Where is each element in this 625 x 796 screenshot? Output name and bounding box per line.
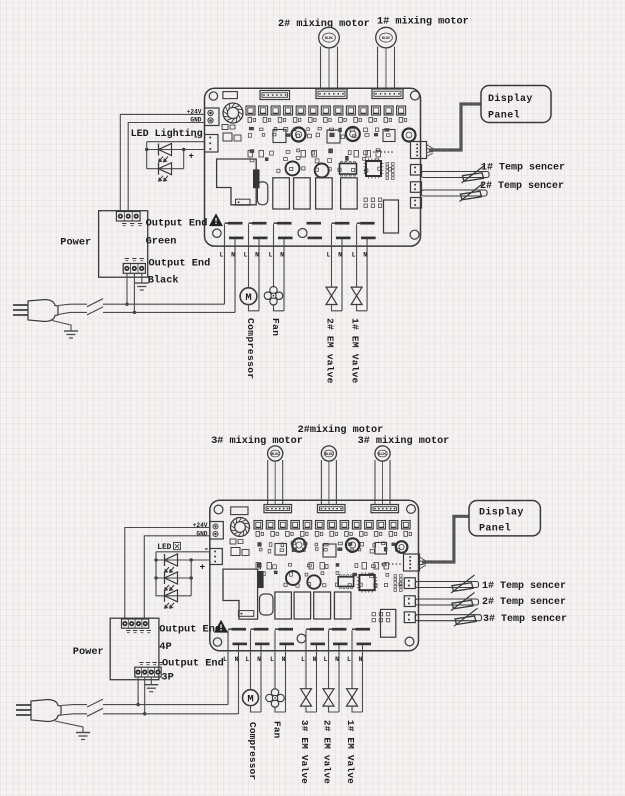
connector 1# motor [371, 505, 399, 513]
connector 2# temp sensor [404, 596, 415, 607]
compressor motor M3 [240, 288, 257, 305]
connector +24V/GND power input [210, 522, 224, 540]
wire mains N to board [103, 311, 235, 313]
wire LED positive rail [147, 141, 205, 143]
mounting hole [407, 505, 416, 514]
connector display (4-pin) [411, 142, 434, 159]
svg-text:L: L [347, 656, 351, 663]
label Black [148, 275, 179, 287]
wire display cable (thick) [422, 516, 469, 562]
LED D4 [165, 572, 178, 591]
mounting hole [297, 634, 306, 643]
terminal pair compressor [251, 629, 270, 712]
thermistor probe 2# with leads [415, 593, 478, 611]
label 2# EM valve (vertical) [324, 318, 335, 384]
label 4P [159, 641, 171, 653]
label L [220, 252, 224, 259]
svg-text:2#mixing motor: 2#mixing motor [298, 424, 384, 436]
terminal pair 3# valve [306, 629, 325, 712]
svg-text:1# mixing motor: 1# mixing motor [377, 16, 469, 28]
terminal pair AC input (L/N) [228, 629, 247, 714]
polarity marks [139, 663, 163, 665]
svg-text:N: N [338, 252, 342, 259]
connector 2# temp sensor [411, 182, 422, 193]
svg-text:BLDC: BLDC [378, 453, 386, 457]
motor M6 (3# mixing BLDC) [268, 446, 283, 505]
label N [257, 656, 261, 663]
wire plug earth lead [52, 321, 71, 332]
motor M5 (2# mixing BLDC) [321, 446, 336, 505]
svg-text:N: N [257, 656, 261, 663]
svg-text:3# Temp sencer: 3# Temp sencer [483, 614, 567, 625]
svg-text:Compressor: Compressor [247, 722, 258, 780]
svg-text:-: - [204, 544, 210, 555]
svg-text:N: N [313, 656, 317, 663]
terminal block mains input (3P) [135, 667, 161, 677]
label 3# Temp sencer [483, 614, 567, 625]
wire LED right bus [190, 560, 192, 596]
label N [313, 656, 317, 663]
svg-text:N: N [235, 656, 239, 663]
connector display (4-pin) [404, 554, 427, 571]
connector spare (2-pin) [411, 198, 422, 209]
switch SW4 (N pole) [87, 708, 103, 716]
svg-text:2# EM valve: 2# EM valve [324, 318, 335, 384]
switch SW1 (L pole) [87, 299, 103, 307]
label Output End [149, 258, 211, 270]
label N [335, 656, 339, 663]
label L [270, 656, 274, 663]
label L [244, 252, 248, 259]
label N [282, 656, 286, 663]
mains plug P2 [16, 700, 61, 722]
connector 1# temp sensor [404, 578, 415, 589]
mounting hole [214, 505, 223, 514]
wire earth from terminal [141, 273, 143, 283]
motor M1 (1# mixing motor BLDC) [376, 27, 397, 89]
svg-text:Display: Display [488, 93, 533, 105]
wire 1# valve loop [352, 706, 363, 712]
svg-text:BLDC: BLDC [382, 37, 390, 41]
label Panel [479, 523, 511, 535]
terminal block mains input [123, 264, 145, 274]
wire LED row 1 [154, 558, 210, 561]
compressor motor [243, 690, 259, 706]
wire LED left bus [155, 552, 157, 596]
svg-text:Fan: Fan [270, 318, 281, 336]
wire plug cable N [61, 714, 87, 715]
connector LED output (3-pin) [210, 549, 223, 565]
label +24V [187, 109, 202, 116]
terminal pair 2# valve [329, 629, 348, 712]
svg-text:Output End: Output End [149, 258, 211, 270]
svg-text:N: N [282, 656, 286, 663]
svg-text:M: M [245, 292, 251, 304]
wire plug cable L [58, 304, 87, 305]
svg-text:N: N [231, 252, 235, 259]
label L [269, 252, 273, 259]
label 3# EM Valve (vertical) [299, 720, 310, 784]
solenoid valve 2# EM [326, 287, 337, 304]
terminal pair fan [274, 223, 293, 311]
svg-text:Panel: Panel [488, 110, 520, 122]
thermistor probe 3# with leads [415, 608, 481, 626]
solenoid valve 3# EM [301, 689, 312, 706]
svg-text:GND: GND [196, 531, 207, 538]
wire +24V feed from power supply [120, 114, 204, 211]
label 1# EM Valve (vertical) [345, 720, 356, 784]
label Output End [162, 658, 224, 670]
wire 2# valve loop [329, 706, 340, 712]
fan FM1 [264, 286, 283, 305]
svg-text:N: N [359, 656, 363, 663]
mounting hole [411, 91, 420, 100]
wire L from mains terminal [136, 677, 139, 706]
label Fan (vertical) [271, 721, 282, 739]
svg-text:Power: Power [60, 237, 91, 249]
svg-text:2# Temp sencer: 2# Temp sencer [480, 181, 564, 192]
label LED lamp [157, 543, 180, 553]
label 2# mixing motor [278, 18, 370, 30]
terminal block output (4P) [122, 619, 149, 628]
svg-text:L: L [223, 656, 227, 663]
svg-text:LED Lighting: LED Lighting [131, 128, 203, 140]
label 1# mixing motor [377, 16, 469, 28]
label 1# Temp sencer [481, 163, 565, 174]
wire N from mains terminal [143, 677, 146, 716]
solenoid valve 2# EM [323, 689, 334, 706]
label Power [60, 237, 91, 249]
wire LED bottom rail [147, 168, 184, 170]
svg-text:Green: Green [146, 236, 177, 248]
terminal pair AC input (L/N) [225, 223, 244, 312]
label 3# mixing motor (left) [211, 435, 303, 447]
svg-text:+: + [200, 562, 206, 573]
wire plug cable N [58, 312, 87, 314]
wire mains L to board [103, 704, 228, 706]
wire earth from terminal [150, 677, 152, 685]
LED D5 [165, 590, 178, 609]
LED D2 [159, 163, 172, 182]
solenoid valve 1# EM [351, 287, 362, 304]
label L [352, 252, 356, 259]
connector 2# motor [318, 505, 346, 513]
polarity marks [126, 631, 151, 633]
label Compressor (vertical) [247, 722, 258, 780]
label 3# mixing motor (right) [358, 435, 450, 447]
svg-text:L: L [301, 656, 305, 663]
svg-text:Compressor: Compressor [245, 318, 256, 380]
svg-text:L: L [246, 656, 250, 663]
label minus polarity [193, 133, 198, 143]
wire GND feed from power supply [128, 123, 204, 212]
connector 1# temp sensor [411, 165, 422, 176]
svg-text:2# Temp sencer: 2# Temp sencer [482, 597, 566, 608]
svg-text:2# EM valve: 2# EM valve [322, 720, 333, 784]
connector LED output (3-pin) [205, 135, 219, 153]
svg-text:L: L [270, 656, 274, 663]
wire LED left bus [146, 142, 148, 169]
wire plug earth lead [55, 721, 83, 733]
controller PCB board U-MAIN (top diagram) [205, 88, 421, 246]
terminal pair spare [307, 223, 323, 238]
warning triangle [210, 215, 222, 226]
ground symbol (power supply earth) [144, 685, 158, 692]
LED D3 [165, 554, 178, 573]
svg-text:L: L [327, 252, 331, 259]
label N [231, 252, 235, 259]
terminal pair compressor [249, 223, 268, 311]
wire +24V feed from power supply [125, 528, 210, 619]
label L [347, 656, 351, 663]
label GND [190, 117, 201, 124]
label Panel [488, 110, 520, 122]
mounting hole [209, 92, 217, 100]
svg-text:LED: LED [157, 544, 171, 552]
silkscreen rectangle [231, 507, 248, 515]
svg-text:Power: Power [73, 646, 104, 658]
label minus polarity [204, 544, 210, 555]
wire fan loop [274, 304, 285, 311]
label 2#mixing motor [298, 424, 384, 436]
wire display cable (thick) [429, 104, 481, 150]
label 2# Temp sencer [482, 597, 566, 608]
polarity marks [122, 224, 142, 226]
wire N from mains terminal [133, 273, 136, 314]
switch SW3 (L pole) [87, 699, 103, 707]
wire LED row 3 [156, 595, 191, 597]
svg-text:N: N [255, 252, 259, 259]
thermistor probe 1# with leads [422, 165, 490, 183]
svg-text:BLDC: BLDC [325, 453, 333, 457]
connector 3# motor [264, 505, 292, 513]
label N [280, 252, 284, 259]
label Compressor (vertical) [245, 318, 256, 380]
mounting hole [298, 229, 307, 238]
wire 2# valve loop [332, 305, 343, 311]
label N [255, 252, 259, 259]
wire plug cable L [61, 704, 87, 707]
display panel box [481, 86, 551, 123]
label Display [479, 507, 524, 519]
label 1# EM Valve (vertical) [349, 318, 360, 384]
controller PCB board (bottom diagram) [210, 500, 419, 651]
svg-text:Fan: Fan [271, 721, 282, 739]
wire L from mains terminal [125, 273, 128, 306]
label +24V [193, 522, 208, 529]
wire 3# valve loop [306, 706, 317, 712]
power supply PSU1 [99, 211, 148, 278]
svg-text:L: L [220, 252, 224, 259]
mounting hole [213, 229, 221, 237]
label L [246, 656, 250, 663]
svg-text:BLDC: BLDC [325, 37, 333, 41]
svg-text:1# Temp sencer: 1# Temp sencer [482, 581, 566, 592]
power supply PSU2 [110, 618, 159, 680]
connector J3 (6-pin aux) [260, 91, 290, 100]
svg-text:Black: Black [148, 275, 179, 287]
label plus polarity [189, 152, 194, 162]
svg-text:N: N [335, 656, 339, 663]
svg-text:+: + [189, 152, 194, 162]
svg-text:Panel: Panel [479, 523, 511, 535]
svg-text:Display: Display [479, 507, 524, 519]
label Power [73, 646, 104, 658]
svg-text:L: L [269, 252, 273, 259]
svg-text:N: N [280, 252, 284, 259]
fan [266, 689, 285, 708]
connector 3# temp sensor [404, 612, 415, 623]
svg-text:BLDC: BLDC [271, 453, 279, 457]
label GND [196, 531, 207, 538]
label Fan (vertical) [270, 318, 281, 336]
LED D1 [159, 144, 172, 163]
label Green [146, 236, 177, 248]
svg-text:L: L [244, 252, 248, 259]
label N [359, 656, 363, 663]
thermistor probe 2# with leads [422, 184, 488, 202]
terminal pair fan [275, 629, 294, 712]
svg-text:L: L [324, 656, 328, 663]
wire LED row 2 [154, 576, 193, 579]
label N [338, 252, 342, 259]
wire LED return rail [145, 148, 205, 151]
label Output End [159, 624, 221, 636]
label Display [488, 93, 533, 105]
svg-text:4P: 4P [159, 641, 171, 653]
label L [223, 656, 227, 663]
label plus polarity [200, 562, 206, 573]
label N [235, 656, 239, 663]
terminal pair 1# EM valve [357, 223, 376, 311]
terminal block output 24V (3P) [116, 212, 140, 222]
mounting hole [405, 637, 414, 646]
svg-text:Output End: Output End [146, 218, 208, 230]
mounting hole [213, 638, 221, 646]
connector J2 (2# motor) [316, 89, 347, 99]
label 1# Temp sencer [482, 581, 566, 592]
label 2# Temp sencer [480, 181, 564, 192]
svg-text:-: - [193, 133, 198, 143]
svg-text:1# EM Valve: 1# EM Valve [349, 318, 360, 384]
terminal pair 1# valve [352, 629, 371, 712]
wire LED right bus [183, 150, 185, 169]
label 2# EM valve (vertical) [322, 720, 333, 784]
label LED Lighting [131, 128, 203, 140]
ground symbol (mains earth) [64, 331, 78, 338]
svg-text:3P: 3P [161, 672, 173, 684]
wire mains N to board [103, 713, 239, 715]
svg-text:Output End: Output End [162, 658, 224, 670]
wire 1# valve loop [357, 305, 368, 311]
PCB components (top board) [217, 103, 416, 233]
thermistor probe 1# with leads [415, 575, 478, 593]
svg-text:M: M [247, 694, 253, 706]
label Output End [146, 218, 208, 230]
label L [327, 252, 331, 259]
svg-text:3# mixing motor: 3# mixing motor [211, 435, 303, 447]
svg-text:Output End: Output End [159, 624, 221, 636]
wire LED positive rail [156, 551, 210, 553]
silkscreen rectangle [223, 92, 238, 99]
label L [301, 656, 305, 663]
wire compressor loop [249, 305, 260, 311]
solenoid valve 1# EM [347, 689, 358, 706]
warning triangle [215, 621, 227, 632]
mains plug P1 [13, 300, 58, 322]
wire fan loop [275, 707, 286, 713]
ground symbol (mains earth) [76, 733, 90, 740]
PCB components (bottom board) [223, 518, 412, 638]
wire mains L to board [103, 303, 225, 305]
connector J1 (1# motor) [372, 89, 403, 99]
svg-text:1# Temp sencer: 1# Temp sencer [481, 163, 565, 174]
label N [363, 252, 367, 259]
wire compressor loop [251, 706, 262, 712]
label 3P [161, 672, 173, 684]
terminal pair 2# EM valve [332, 223, 351, 311]
label L [324, 656, 328, 663]
polarity marks [125, 259, 144, 261]
mounting hole [410, 230, 419, 239]
motor M4 (3# mixing BLDC) [375, 446, 390, 505]
svg-text:L: L [352, 252, 356, 259]
svg-text:1# EM Valve: 1# EM Valve [345, 720, 356, 784]
switch SW2 (N pole) [87, 307, 103, 315]
connector +24V/GND power input [205, 108, 220, 126]
motor M2 (2# mixing motor BLDC) [319, 27, 340, 89]
wire GND feed from power supply [144, 536, 210, 618]
display panel box [469, 501, 540, 536]
svg-text:N: N [363, 252, 367, 259]
svg-text:3# EM Valve: 3# EM Valve [299, 720, 310, 784]
svg-text:3# mixing motor: 3# mixing motor [358, 435, 450, 447]
ground symbol (power supply earth) [135, 283, 149, 290]
